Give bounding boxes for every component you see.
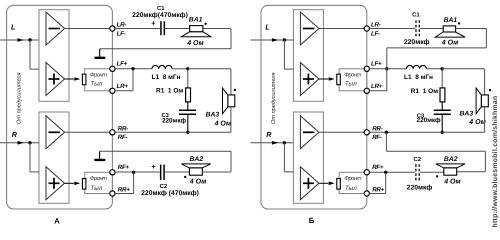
svg-text:C1: C1: [412, 11, 420, 18]
svg-text:Тыл: Тыл: [345, 81, 357, 88]
label LF+ (A): [117, 60, 128, 67]
BA3 polarity dot (B): [489, 89, 491, 91]
svg-text:L1 8 мГн: L1 8 мГн: [404, 74, 433, 81]
op-amp inverting A2.1 (B): [300, 116, 319, 149]
speaker BA3 driver: [228, 95, 235, 107]
label C3: [161, 112, 169, 119]
label RR+ (A): [118, 187, 130, 194]
wire RF+/RR+ tie: [115, 172, 134, 193]
svg-text:BA2: BA2: [444, 156, 458, 163]
label LR- (A): [117, 22, 127, 29]
label BA1 (B): [444, 17, 458, 24]
op-amp non-inverting A2.2 (A): [46, 167, 65, 200]
ground GND1: [94, 49, 105, 59]
input R wire (B): [251, 142, 294, 144]
input R arrow (A): [18, 141, 25, 145]
capacitor C3: [179, 110, 196, 116]
wire RF+ to C2 (B): [369, 171, 415, 173]
label C2 value: [141, 190, 199, 197]
resistor R1 (B): [440, 88, 445, 102]
switch SA2 slider (B): [337, 179, 341, 190]
label R1 value: [156, 88, 183, 95]
label C3 (B): [417, 112, 425, 119]
svg-text:+: +: [151, 19, 155, 28]
wire R1 to C3 (B): [441, 102, 443, 110]
speaker BA1 horn: [181, 32, 211, 37]
input L wire (B): [251, 39, 294, 41]
wire BA3 to rail (B): [484, 107, 486, 133]
wire RF+/RR+ tie (B): [369, 172, 385, 193]
wire LF+ to L1: [115, 68, 152, 70]
wire A1.1 out (A): [65, 28, 113, 30]
amp block U1 (A): [39, 10, 69, 102]
switch box SA2 (A): [85, 172, 113, 193]
svg-text:LR-: LR-: [117, 22, 127, 29]
svg-text:BA3: BA3: [206, 112, 220, 119]
svg-text:LF+: LF+: [371, 60, 382, 67]
terminal LR+ (A): [110, 88, 115, 93]
svg-text:L1 8 мГн: L1 8 мГн: [152, 74, 181, 81]
wire C3 to rail: [187, 115, 189, 132]
svg-text:4 Ом: 4 Ом: [468, 119, 486, 126]
svg-text:+: +: [151, 162, 155, 171]
label R (A): [12, 130, 18, 139]
terminal RR-/RF- (B): [364, 130, 369, 135]
wire L1 to node A (B): [426, 68, 442, 70]
label R (B): [266, 130, 272, 139]
label BA2 4 Ohm (B): [443, 178, 461, 185]
label Front SA2 (B): [344, 175, 361, 182]
node L junction (B): [283, 38, 286, 41]
BA3 polarity dot: [234, 89, 236, 91]
svg-text:Тыл: Тыл: [345, 185, 357, 192]
svg-text:RF-: RF-: [372, 134, 382, 141]
input R arrow (B): [272, 141, 279, 145]
resistor R1: [186, 88, 191, 102]
switch SA2 arrow (A): [65, 182, 81, 186]
svg-text:LR-: LR-: [371, 22, 381, 29]
wire BA2 return: [100, 151, 231, 172]
node L junction (A): [28, 38, 31, 41]
svg-text:RR-: RR-: [372, 125, 382, 132]
svg-text:LR+: LR+: [371, 83, 383, 90]
wire LF+/LR+ tie (B): [369, 69, 386, 91]
wire LR-/LF- to C1: [115, 28, 160, 30]
node RF+/RR+ tie junction: [132, 171, 135, 174]
svg-text:220мкф(470мкф): 220мкф(470мкф): [132, 12, 188, 19]
label C1 value: [132, 12, 188, 19]
wire C3 to rail (B): [441, 115, 443, 132]
label RF+ (A): [118, 164, 130, 171]
label C1: [157, 5, 165, 12]
svg-text:LF+: LF+: [117, 60, 128, 67]
wire LF+/LR+ tie: [115, 69, 133, 91]
label RR- (B): [372, 125, 382, 132]
wire LR-/LF- to C1 (B): [369, 28, 415, 30]
BA2 polarity dot (B): [436, 175, 438, 177]
label BA3 (B): [460, 111, 474, 118]
svg-text:220мкф: 220мкф: [407, 184, 433, 191]
wire node A to R1 (B): [441, 69, 443, 88]
svg-text:От предусилителя: От предусилителя: [270, 72, 277, 124]
label BA3 4 Ohm: [214, 120, 232, 127]
svg-text:L: L: [11, 22, 15, 31]
speaker BA2 horn: [182, 164, 211, 168]
capacitor C2 (B) dashed: [416, 164, 419, 180]
svg-text:Тыл: Тыл: [90, 185, 102, 192]
label BA2 4 Ohm: [189, 178, 207, 185]
wire node A to R1: [187, 69, 189, 88]
BA1 polarity dot (B): [458, 22, 460, 24]
svg-text:RR-: RR-: [118, 125, 128, 132]
label A: [54, 217, 60, 226]
amp block U2 (A): [39, 112, 69, 203]
wire node A to BA3 (B): [442, 69, 484, 95]
label C2 (B): [414, 156, 422, 163]
node C3/rail junction: [186, 131, 189, 134]
label Rear SA1 (A): [90, 81, 102, 88]
svg-text:RR+: RR+: [372, 187, 384, 194]
wire BA1 return (B): [387, 29, 487, 69]
switch box SA1 (A): [85, 69, 113, 91]
label C2 value (B): [407, 184, 433, 191]
wire node A to BA3: [188, 69, 231, 95]
switch SA2 arrow (B): [319, 182, 335, 186]
capacitor C2: [160, 165, 165, 181]
label L1 value: [152, 74, 181, 81]
label R1 value (B): [411, 88, 438, 95]
speaker BA1 driver: [190, 26, 203, 32]
op-amp inverting A2.1 (A): [46, 116, 65, 149]
input L arrow (A): [18, 38, 25, 42]
op-amp inverting A1.1 (B): [300, 12, 319, 45]
switch box SA2 (B): [339, 172, 367, 193]
input R wire (A): [0, 142, 39, 144]
svg-text:4 Ом: 4 Ом: [186, 40, 204, 47]
svg-text:C2: C2: [160, 183, 168, 190]
svg-text:Б: Б: [309, 216, 315, 225]
label BA2 (B): [444, 156, 458, 163]
speaker BA2 driver (B): [444, 168, 457, 175]
label RR- (A): [118, 125, 128, 132]
label C2 plus: [151, 162, 155, 171]
node LF+/LR+ tie junction: [131, 67, 134, 70]
svg-text:BA2: BA2: [190, 156, 204, 163]
svg-text:L: L: [265, 22, 269, 31]
node BA2-return/rail junction (B): [385, 131, 388, 134]
label LR- (B): [371, 22, 381, 29]
terminal RR+ (A): [110, 191, 115, 196]
wire C2 to BA2: [165, 171, 190, 173]
input L arrow (B): [272, 38, 279, 42]
svg-text:RF+: RF+: [372, 164, 384, 171]
op-amp inverting A1.1 (A): [46, 12, 65, 45]
wire R to noninv (B): [284, 143, 293, 172]
terminal LR+ (B): [364, 88, 369, 93]
input L wire (A): [0, 39, 39, 41]
wire A2.1 out (B): [319, 131, 367, 133]
svg-text:C2: C2: [414, 156, 422, 163]
BA1 polarity dot: [204, 23, 206, 25]
label from-preamp (A): [16, 72, 23, 124]
terminal LF+ (A): [110, 66, 115, 71]
svg-text:C1: C1: [157, 5, 165, 12]
svg-text:RF+: RF+: [118, 164, 130, 171]
wire C1 to BA1: [165, 28, 190, 30]
svg-text:BA3: BA3: [460, 111, 474, 118]
label BA3 4 Ohm (B): [468, 119, 486, 126]
label Front SA1 (B): [344, 72, 361, 79]
speaker BA2 horn (B): [436, 164, 465, 168]
label BA3: [206, 112, 220, 119]
label RF+ (B): [372, 164, 384, 171]
node R junction (A): [28, 141, 31, 144]
svg-text:4 Ом: 4 Ом: [214, 120, 232, 127]
terminal LR-/LF- (B): [364, 26, 369, 31]
svg-text:R: R: [266, 130, 272, 139]
label from-preamp (B): [270, 72, 277, 124]
svg-text:220мкф: 220мкф: [404, 39, 430, 46]
node A junction: [186, 67, 189, 70]
svg-text:BA1: BA1: [189, 17, 203, 24]
label BA1 4 Ohm: [186, 40, 204, 47]
label Rear SA2 (A): [90, 185, 102, 192]
svg-text:220мкф: 220мкф: [417, 117, 442, 124]
label C3 value (B): [417, 117, 442, 124]
speaker BA1 horn (B): [435, 32, 465, 37]
wire RR-/RF- rail (B): [369, 131, 484, 133]
svg-text:RR+: RR+: [118, 187, 130, 194]
svg-text:R: R: [12, 130, 18, 139]
wire BA2 return (B): [386, 132, 485, 172]
switch SA1 slider (B): [337, 74, 341, 85]
svg-text:R1 1 Ом: R1 1 Ом: [411, 88, 438, 95]
label L1 value (B): [404, 74, 433, 81]
node R junction (B): [283, 141, 286, 144]
svg-text:Фронт: Фронт: [90, 175, 107, 182]
switch SA1 slider (A): [82, 74, 86, 85]
svg-text:4 Ом: 4 Ом: [189, 178, 207, 185]
svg-text:4 Ом: 4 Ом: [443, 178, 461, 185]
svg-text:RF-: RF-: [118, 134, 128, 141]
svg-text:Фронт: Фронт: [344, 175, 361, 182]
capacitor C1 (B) dashed: [416, 20, 419, 36]
wire L to noninv (B): [284, 40, 293, 69]
label C1 (B): [412, 11, 420, 18]
svg-text:LR+: LR+: [117, 83, 129, 90]
label L (B): [265, 22, 269, 31]
svg-text:Фронт: Фронт: [344, 72, 361, 79]
terminal LF+ (B): [364, 66, 369, 71]
label Front SA1 (A): [90, 72, 107, 79]
wire A1.1 out (B): [319, 28, 367, 30]
terminal RR-/RF- (A): [110, 130, 115, 135]
label L (A): [11, 22, 15, 31]
node A junction (B): [441, 67, 444, 70]
svg-text:220мкф (470мкф): 220мкф (470мкф): [141, 190, 199, 197]
wire L1 to node A: [172, 68, 188, 70]
wire RR-/RF- rail: [115, 131, 231, 133]
speaker BA3 horn (B): [476, 88, 481, 114]
wire R1 to C3: [187, 102, 189, 110]
svg-text:LF-: LF-: [371, 30, 380, 37]
label Rear SA2 (B): [345, 185, 357, 192]
amp block U2 (B): [293, 112, 323, 203]
terminal RF+ (A): [110, 170, 115, 175]
svg-text:http://www.bluesmobil.com/shik: http://www.bluesmobil.com/shikhman: [492, 96, 499, 227]
inductor L1 (B): [406, 65, 426, 68]
inductor L1: [152, 65, 172, 68]
wire BA1 return: [100, 29, 231, 49]
svg-text:А: А: [54, 217, 60, 226]
label LR+ (A): [117, 83, 129, 90]
label Rear SA1 (B): [345, 81, 357, 88]
wire R to noninv (A): [30, 143, 39, 172]
wire L to noninv (A): [30, 40, 39, 69]
label BA1: [189, 17, 203, 24]
amp block U1 (B): [293, 10, 323, 102]
wire LF+ to L1 (B): [369, 68, 406, 70]
svg-text:R1 1 Ом: R1 1 Ом: [156, 88, 183, 95]
terminal RF+ (B): [364, 170, 369, 175]
label Front SA2 (A): [90, 175, 107, 182]
speaker BA2 driver: [189, 168, 202, 175]
speaker BA3 driver (B): [481, 95, 488, 107]
label RF- (A): [118, 134, 128, 141]
speaker BA3 horn: [223, 88, 228, 114]
wire A2.1 out (A): [65, 131, 113, 133]
label C2: [160, 183, 168, 190]
switch SA2 slider (A): [82, 179, 86, 190]
label C3 value: [162, 117, 187, 124]
ground GND2: [94, 151, 105, 161]
label BA2: [190, 156, 204, 163]
label RR+ (B): [372, 187, 384, 194]
svg-text:BA1: BA1: [444, 17, 458, 24]
label LR+ (B): [371, 83, 383, 90]
label B: [309, 216, 315, 225]
label BA1 4 Ohm (B): [441, 40, 459, 47]
speaker BA1 driver (B): [443, 26, 455, 32]
svg-text:Фронт: Фронт: [90, 72, 107, 79]
svg-text:4 Ом: 4 Ом: [441, 40, 459, 47]
node RF+/RR+ junction (B): [384, 171, 387, 174]
label LF- (A): [117, 30, 126, 37]
switch SA1 arrow (B): [319, 77, 335, 81]
label C1 value (B): [404, 39, 430, 46]
svg-text:220мкф: 220мкф: [162, 117, 187, 124]
label C1 plus: [151, 19, 155, 28]
watermark url: [492, 96, 499, 228]
head unit box (A): [7, 5, 113, 209]
node C3/rail junction (B): [441, 131, 444, 134]
switch SA1 arrow (A): [65, 77, 81, 81]
wire C1 to BA1 (B): [420, 28, 443, 30]
label LF+ (B): [371, 60, 382, 67]
terminal LR-/LF- (A): [110, 26, 115, 31]
svg-text:LF-: LF-: [117, 30, 126, 37]
op-amp non-inverting A1.2 (B): [300, 63, 319, 96]
capacitor C1: [160, 21, 165, 35]
label LF- (B): [371, 30, 380, 37]
wire RF+ to C2: [115, 171, 160, 173]
svg-text:От предусилителя: От предусилителя: [16, 72, 23, 124]
switch box SA1 (B): [339, 69, 367, 91]
wire C2 to BA2 (B): [420, 171, 444, 173]
op-amp non-inverting A2.2 (B): [300, 167, 319, 200]
svg-text:Тыл: Тыл: [90, 81, 102, 88]
BA2 polarity dot: [184, 176, 186, 178]
label RF- (B): [372, 134, 382, 141]
terminal RR+ (B): [364, 191, 369, 196]
op-amp non-inverting A1.2 (A): [46, 63, 65, 96]
capacitor C3 (B): [434, 110, 451, 116]
head unit box (B): [261, 5, 367, 209]
wire BA3 to rail: [230, 107, 232, 133]
node BA1/LF+ junction (B): [385, 67, 388, 70]
